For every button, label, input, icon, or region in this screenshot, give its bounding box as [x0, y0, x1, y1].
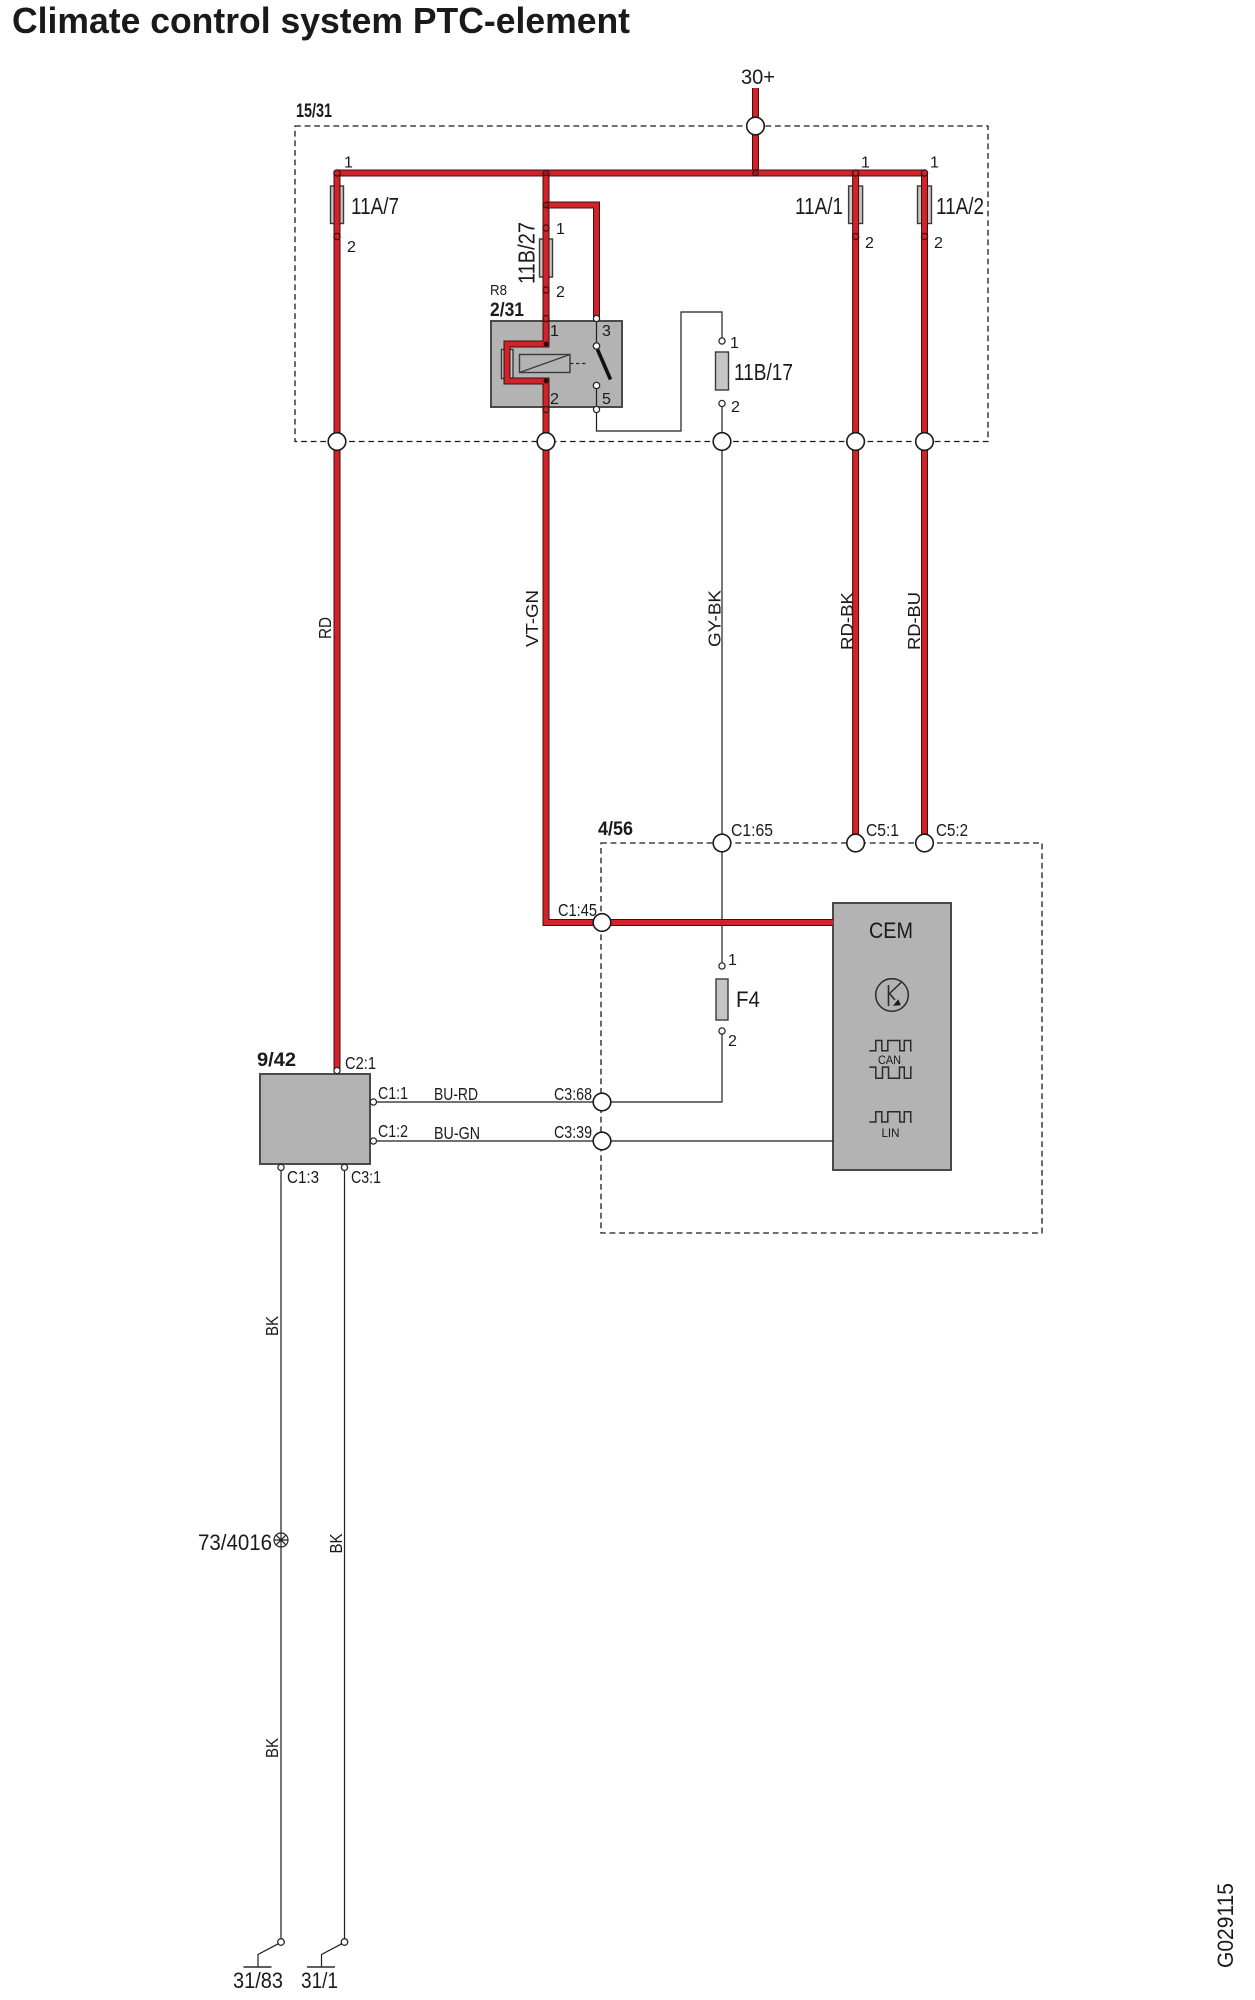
wire RD-BU 11A/2 to C5:2	[921, 173, 928, 843]
svg-text:BU-RD: BU-RD	[434, 1084, 478, 1104]
connector pin C1:1	[370, 1099, 376, 1105]
relay pin1 and pin2 circles	[543, 315, 549, 412]
pin labels fuse F4	[728, 952, 737, 1050]
svg-text:GY-BK: GY-BK	[705, 590, 725, 647]
svg-text:2: 2	[556, 284, 565, 301]
connector C1:65	[713, 834, 731, 852]
svg-text:30+: 30+	[741, 66, 775, 89]
ground 31/83	[244, 1939, 285, 1967]
wire relay coil loop pin1 to pin2	[507, 318, 546, 412]
wire BU-RD C1:1 to C3:68	[376, 1101, 602, 1103]
wire RD 11A/7 to C2:1	[334, 173, 341, 1070]
connector pin C3:1	[341, 1164, 347, 1170]
wire 30+ supply drop	[752, 88, 759, 173]
junction RD on 15/31 bottom border	[328, 433, 346, 451]
relay pin number labels	[550, 323, 611, 408]
svg-text:C1:45: C1:45	[558, 900, 597, 920]
connector C3:39	[593, 1132, 611, 1150]
relay pin3 and pin5 circles	[593, 315, 599, 412]
connector pin C1:3	[278, 1164, 284, 1170]
node bus junction at 11B/27 branch	[543, 170, 549, 176]
svg-text:1: 1	[550, 323, 559, 340]
CEM LIN bus icon	[869, 1112, 911, 1140]
svg-text:31/83: 31/83	[233, 1968, 283, 1993]
svg-text:C5:1: C5:1	[866, 820, 899, 840]
svg-text:2/31: 2/31	[490, 300, 524, 321]
CEM instrument icon circle K	[876, 979, 909, 1012]
svg-text:BK: BK	[262, 1738, 282, 1758]
pin labels fuse 11B/27	[556, 221, 565, 301]
pin labels fuse 11A/2	[930, 155, 943, 253]
ECU box 4/56 dashed outline	[598, 819, 1042, 1233]
node bus junction at 30+	[753, 170, 759, 176]
svg-text:5: 5	[602, 391, 611, 408]
svg-text:BU-GN: BU-GN	[434, 1123, 480, 1143]
wire BK right C3:1 to ground 31/1	[344, 1167, 346, 1939]
fuse F4 body	[716, 979, 728, 1020]
wire BU-GN C1:2 to C3:39 to CEM	[376, 1140, 833, 1142]
pin labels fuse 11B/17	[730, 335, 740, 416]
svg-text:1: 1	[930, 155, 939, 172]
svg-text:RD-BU: RD-BU	[904, 592, 924, 650]
junction RD-BK on 15/31 bottom border	[847, 433, 865, 451]
wire bus branch through 11B/27 to relay pin1	[543, 173, 550, 320]
svg-text:2: 2	[731, 399, 740, 416]
CEM module body	[833, 903, 951, 1170]
relay R8 2/31 body	[490, 282, 622, 407]
control module 9/42 body	[257, 1050, 370, 1164]
svg-text:2: 2	[934, 235, 943, 252]
svg-text:C1:65: C1:65	[731, 820, 773, 840]
fuse box 15/31 dashed outline	[295, 101, 988, 442]
fuse 11A/7 pins	[334, 170, 340, 240]
svg-text:C1:3: C1:3	[287, 1167, 319, 1187]
wire GY-BK 11B/17 to C1:65 to F4	[721, 404, 723, 966]
svg-text:1: 1	[730, 335, 739, 352]
junction VT-GN on 15/31 bottom border	[537, 433, 555, 451]
fuse 11A/2 body	[918, 186, 932, 224]
fuse 11A/7 body	[331, 186, 344, 224]
svg-text:CEM: CEM	[869, 918, 913, 943]
fuse F4 pins	[719, 963, 725, 1034]
connector C5:2	[916, 834, 934, 852]
svg-text:2: 2	[550, 391, 559, 408]
svg-text:11A/2: 11A/2	[936, 193, 984, 219]
svg-text:C2:1: C2:1	[345, 1053, 376, 1073]
svg-text:1: 1	[861, 155, 870, 172]
junction RD-BU on 15/31 bottom border	[916, 433, 934, 451]
svg-text:C1:1: C1:1	[378, 1083, 408, 1103]
connector C3:68	[593, 1093, 611, 1111]
svg-text:C5:2: C5:2	[936, 820, 968, 840]
fuse 11B/27 body	[540, 239, 553, 277]
svg-text:C3:1: C3:1	[351, 1167, 381, 1187]
svg-text:VT-GN: VT-GN	[522, 590, 542, 647]
fuse 11B/27 pins	[543, 225, 549, 293]
connector pin C1:2	[370, 1138, 376, 1144]
svg-text:Climate control system PTC-ele: Climate control system PTC-element	[12, 0, 630, 41]
svg-text:1: 1	[344, 155, 353, 172]
relay coil symbol	[520, 355, 589, 373]
ground 31/1	[307, 1939, 348, 1967]
CEM CAN bus icon	[869, 1041, 912, 1079]
pin labels fuse 11A/1	[861, 155, 874, 253]
junction 30+ on 15/31 border	[747, 117, 765, 135]
fuse 11A/1 body	[849, 186, 863, 224]
svg-text:4/56: 4/56	[598, 819, 633, 840]
node relay coil bottom junction	[544, 379, 549, 384]
relay switch blade and contacts	[593, 322, 610, 407]
svg-text:15/31: 15/31	[296, 101, 332, 122]
wire RD-BK 11A/1 to C5:1	[852, 173, 859, 843]
pin labels fuse 11A/7	[344, 155, 356, 257]
junction GY-BK on 15/31 bottom border	[713, 433, 731, 451]
svg-text:G029115: G029115	[1213, 1883, 1238, 1968]
relay coil end element	[502, 350, 514, 379]
svg-text:73/4016: 73/4016	[198, 1530, 272, 1555]
svg-text:11A/7: 11A/7	[351, 193, 399, 219]
svg-text:2: 2	[865, 235, 874, 252]
connector C5:1	[847, 834, 865, 852]
svg-text:11B/27: 11B/27	[514, 222, 540, 284]
wire VT-GN relay pin2 to C1:45 to CEM	[546, 410, 833, 923]
wire BK left C1:3 to ground 31/83	[280, 1167, 282, 1939]
svg-text:LIN: LIN	[882, 1128, 900, 1140]
svg-text:3: 3	[602, 323, 611, 340]
svg-text:9/42: 9/42	[257, 1050, 296, 1071]
svg-text:RD: RD	[315, 617, 335, 639]
svg-text:CAN: CAN	[878, 1055, 901, 1067]
svg-text:C3:39: C3:39	[554, 1122, 592, 1142]
svg-text:C3:68: C3:68	[554, 1084, 592, 1104]
connector pin C2:1	[334, 1068, 340, 1074]
svg-text:2: 2	[728, 1033, 737, 1050]
fuse 11A/2 pins	[921, 170, 927, 240]
connector C1:45	[593, 914, 611, 932]
svg-text:1: 1	[556, 221, 565, 238]
node branch junction to relay pin3	[543, 202, 549, 208]
fuse 11B/17 pins	[719, 338, 725, 407]
svg-text:31/1: 31/1	[301, 1968, 338, 1993]
svg-text:11A/1: 11A/1	[795, 193, 843, 219]
svg-text:BK: BK	[262, 1316, 282, 1336]
svg-text:BK: BK	[326, 1533, 346, 1553]
fuse 11B/17 body	[716, 352, 729, 390]
svg-text:11B/17: 11B/17	[734, 359, 793, 385]
svg-text:1: 1	[728, 952, 737, 969]
node relay coil top junction	[544, 342, 549, 347]
wire branch to relay pin3	[546, 205, 597, 320]
wire relay pin5 to fuse 11B/17 pin1	[597, 312, 723, 431]
svg-text:RD-BK: RD-BK	[837, 592, 857, 650]
svg-text:2: 2	[347, 239, 356, 256]
svg-text:R8: R8	[490, 282, 507, 299]
svg-text:F4: F4	[736, 987, 760, 1012]
wire battery bus horizontal	[334, 170, 925, 177]
splice 73/4016	[274, 1533, 288, 1547]
wire F4 pin2 to C3:68	[602, 1031, 722, 1102]
svg-text:C1:2: C1:2	[378, 1121, 408, 1141]
fuse 11A/1 pins	[853, 170, 859, 240]
